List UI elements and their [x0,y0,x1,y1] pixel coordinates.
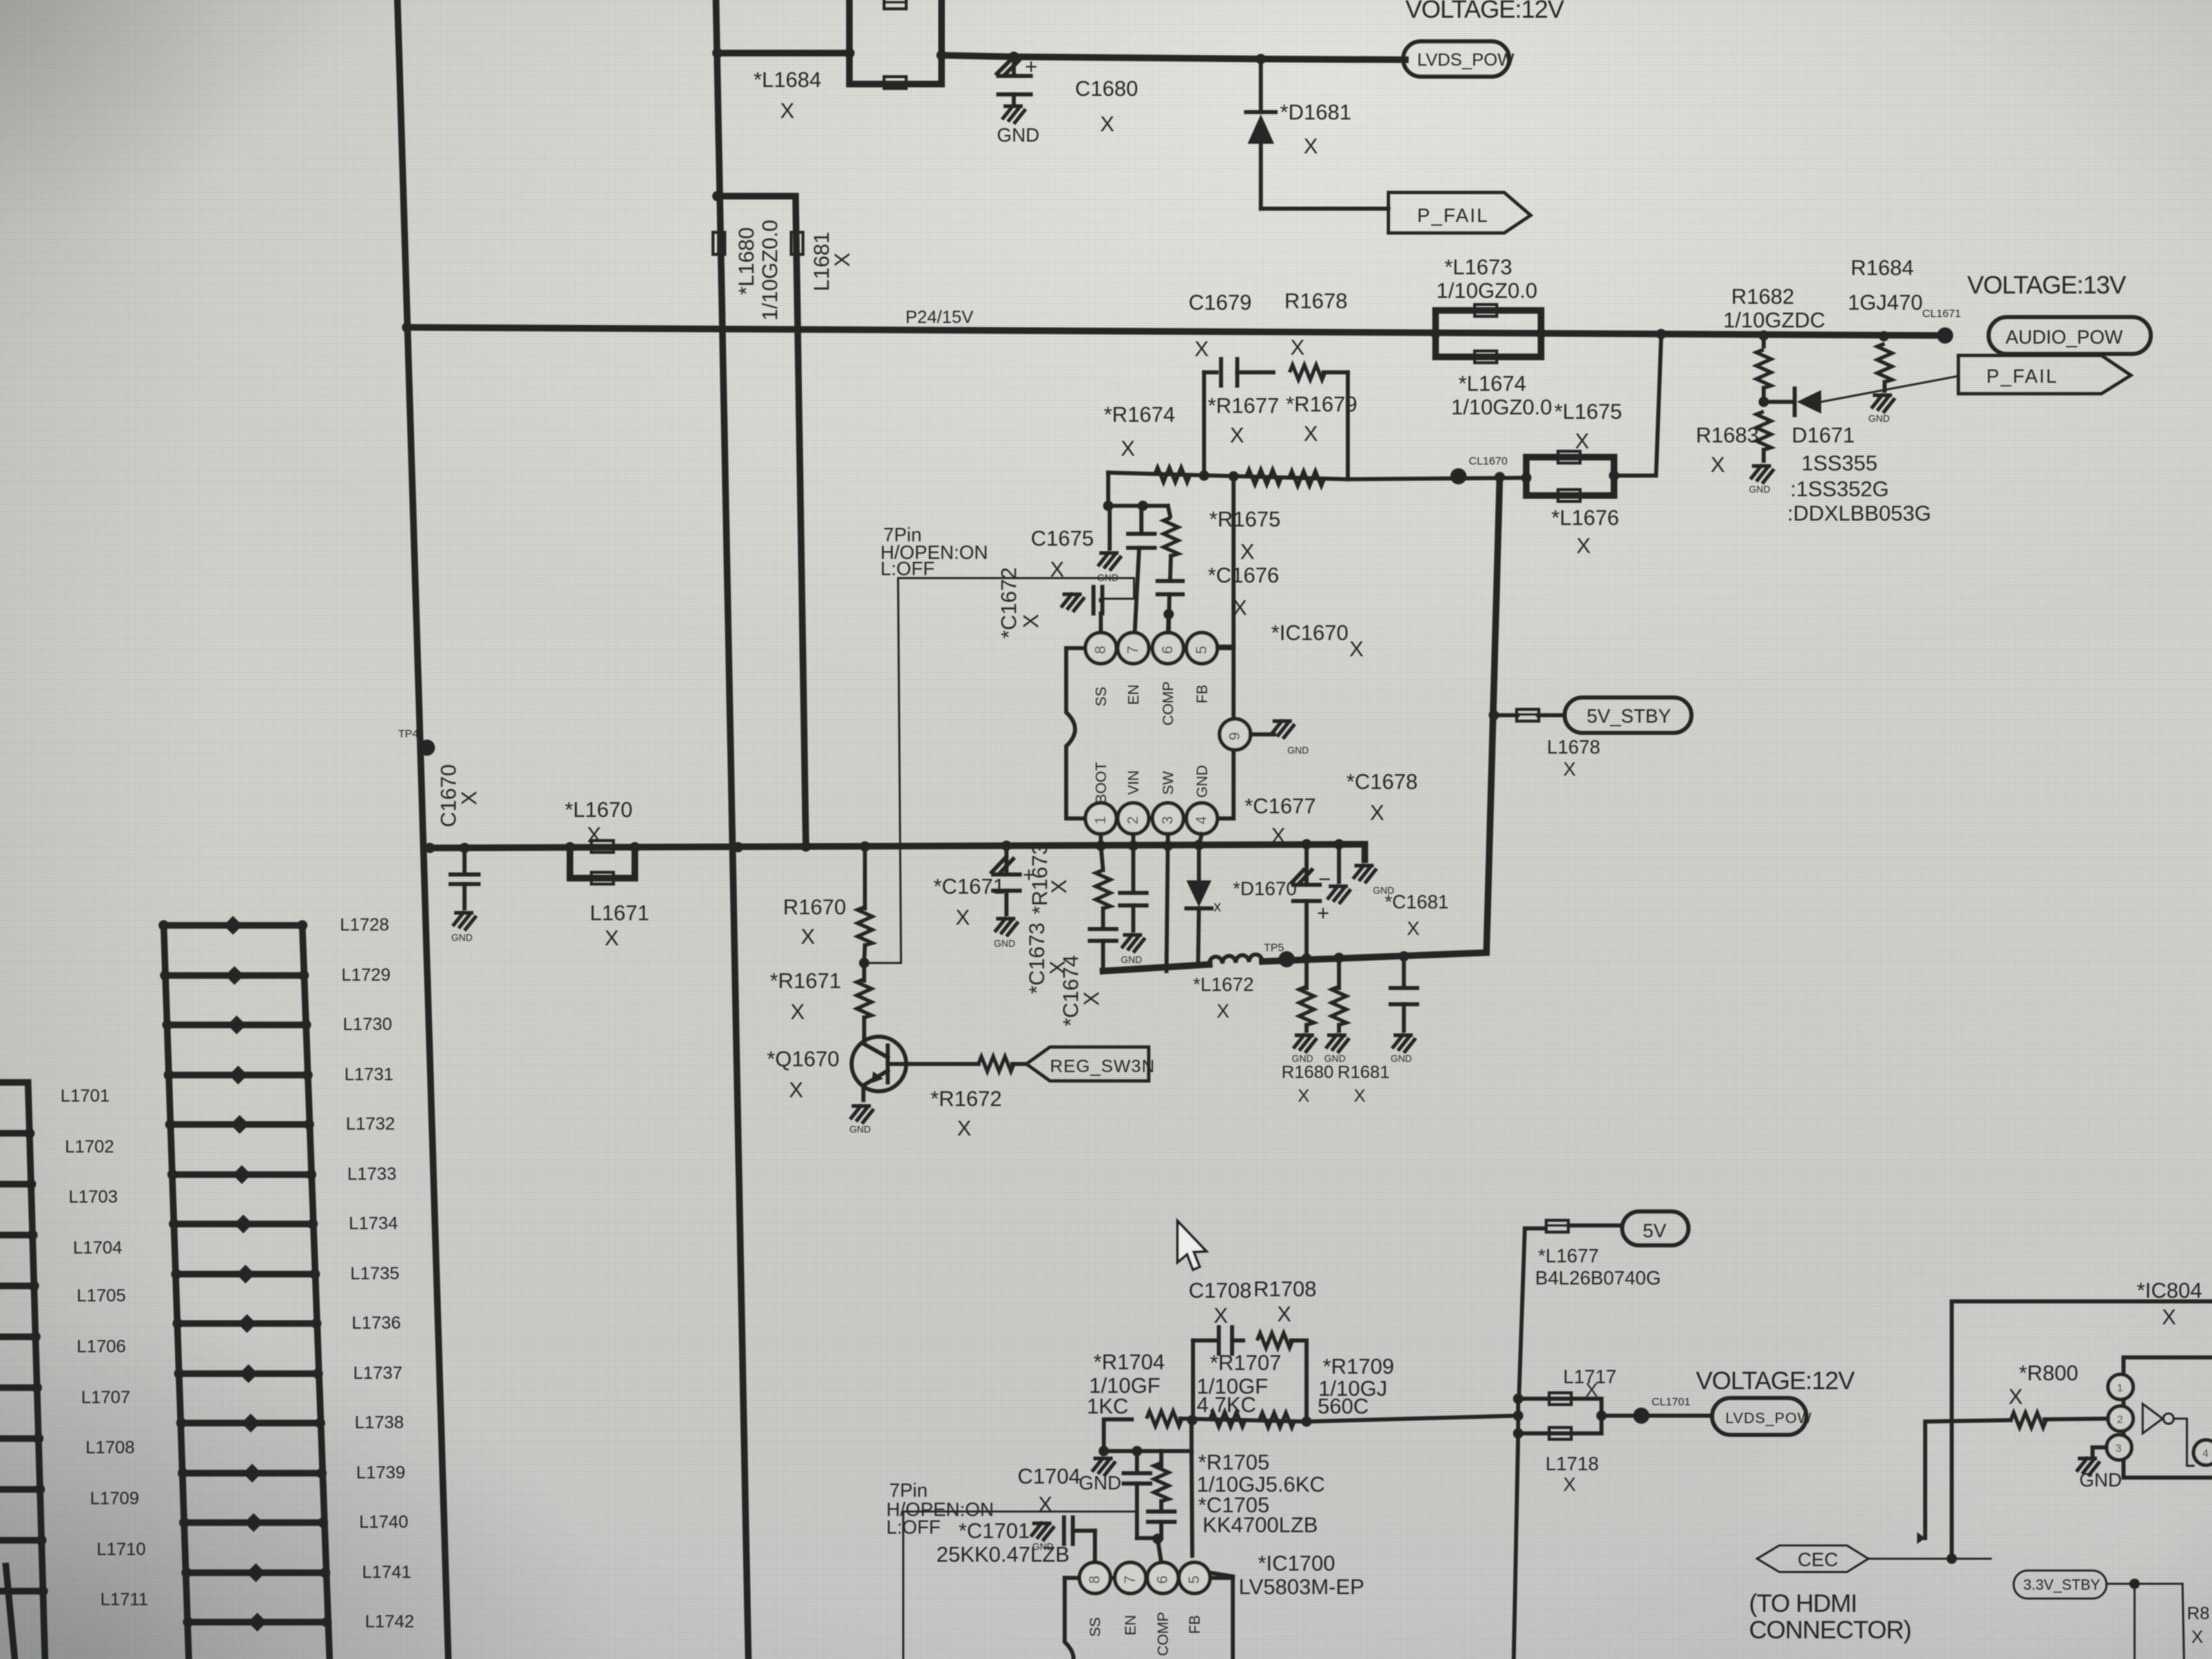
node CL1701 [1633,1408,1649,1424]
capacitor C1708 / resistor R1708 box [1189,1278,1316,1427]
resistor R1683 [1696,411,1774,495]
diode D1681 [1246,54,1388,209]
op-amp regulator IC1670 body [1066,648,1234,818]
ground pin3 [2076,1447,2122,1491]
node vertical A joins bus [733,842,743,852]
pin 3 [1152,803,1183,834]
net flag P_FAIL top [1388,192,1531,233]
inductor L1673 / L1674 parallel [1430,256,1552,420]
wire pin1 pin2 to bus [1099,834,1103,846]
inductor L1670 / L1671 parallel [565,799,650,950]
pin 7 [1118,633,1149,664]
resistor R1674 [1155,467,1190,482]
wire 12V top rail [717,50,849,57]
inverter IC804 [2107,1279,2212,1478]
net flag REG_SW3N [1026,1047,1155,1081]
resistor R1707 body [1210,1412,1245,1427]
op-amp regulator IC1700 body [1065,1578,1074,1659]
wire VIN bus [430,844,1365,848]
wire pin3 SW down [1166,834,1168,971]
wire P24/15V rail [407,327,1947,335]
node CL1670 [1450,455,1508,484]
capacitor C1679 / resistor R1678 compensation box [1199,359,1357,481]
wire pin6 COMP up [1168,614,1169,633]
net flag CEC [1757,1545,1991,1572]
pin 1 [1085,803,1116,834]
capacitor C1704 / resistor R1705 cluster [1018,1420,1325,1562]
net flag P_FAIL right [1958,355,2131,394]
net flag LVDS_POW lower [1641,1398,1812,1435]
connector ladder right L1728-L1742 [159,915,414,1659]
inductor L1680 / L1681 parallel [712,191,855,846]
wire FB compensation line [1108,473,1526,479]
7Pin enable box [864,524,1134,963]
pin 6 [1147,1562,1178,1593]
wire left vertical C1670 net [397,0,448,1659]
resistor R1675 + capacitor C1676 to COMP [1168,506,1170,516]
ground stub mid bus [1327,839,1351,904]
net flag 3.3V_STBY [2014,1571,2210,1659]
wire bus end to ground [1339,844,1394,896]
wire SW output rail [1103,964,1209,971]
wire right vertical [1952,1301,2212,1559]
pin 5 [1186,633,1217,664]
node divider to comp cluster [1031,473,1281,633]
7Pin enable box lower [886,1479,1137,1659]
capacitor C1680 [997,52,1138,146]
capacitor C1670 [451,843,479,943]
wire pin9 to ground [1251,720,1309,756]
inductor L1675 / L1676 parallel [1521,335,1661,558]
wire 5V_STBY branch [1489,698,1691,780]
resistor R1671 [770,963,872,1037]
ground stub [1107,506,1112,549]
pin 9 [1220,719,1251,750]
capacitor C1671 [933,841,1035,949]
node top-left junction [712,48,723,58]
resistor R1673 + capacitor C1673 chain [1090,841,1116,971]
inductor L1717 / L1718 parallel [1513,1366,1641,1495]
pin 6 [1152,633,1183,664]
pin 8 [1079,1562,1110,1593]
resistor R1677 body [1246,470,1281,484]
mouse cursor [1178,1221,1206,1270]
wire main divider line [1180,1416,1518,1422]
capacitor C1674 to ground [1120,841,1147,965]
net flag LVDS_POW top [1403,41,1514,77]
capacitor C1681 [1385,891,1449,1064]
resistor R800 [1917,1362,2108,1544]
pin 2 [1118,803,1149,834]
pin 5 [1179,1562,1210,1593]
wire 5V branch [1519,1211,1688,1399]
node TP5 [1279,951,1295,967]
node TP4 [419,740,435,756]
resistor R1684 [1848,257,1923,424]
resistor R1704 [1087,1351,1182,1451]
resistor R1681 [1324,953,1390,1106]
node P24 left corner [402,322,412,333]
capacitor C1701 + ground [936,1517,1095,1567]
resistor R1670 [783,841,872,968]
node FB junction [1228,471,1239,481]
diode D1671 [1764,376,1958,526]
inductor L1672 coil [1209,955,1262,964]
wire vertical net P12V left [716,0,748,1659]
resistor R1679 body [1289,471,1324,486]
pin 7 [1115,1562,1146,1593]
resistor body second [1259,1413,1295,1427]
pin 4 [1186,803,1217,834]
resistor R1682 chain [1723,285,1826,407]
capacitor C1673 elco mid [1292,839,1331,959]
capacitor C1672 + ground [998,567,1102,639]
pin 8 [1085,633,1116,664]
wire pin5 FB up [1217,476,1234,647]
resistor R1680 [1281,953,1334,1106]
wire pin5 FB drop [1192,1451,1192,1556]
resistor R1672 to flag [888,1057,1026,1141]
capacitor C1675 [1139,506,1144,532]
net flag AUDIO_POW [1989,317,2151,354]
transistor Q1670 [767,1037,906,1135]
diode D1670 [1186,834,1297,960]
wire LVDS vertical down [1514,1433,1518,1659]
connector ladder left L1701-L1711 [0,1082,148,1659]
inductor L1684 parallel pair [754,0,947,123]
